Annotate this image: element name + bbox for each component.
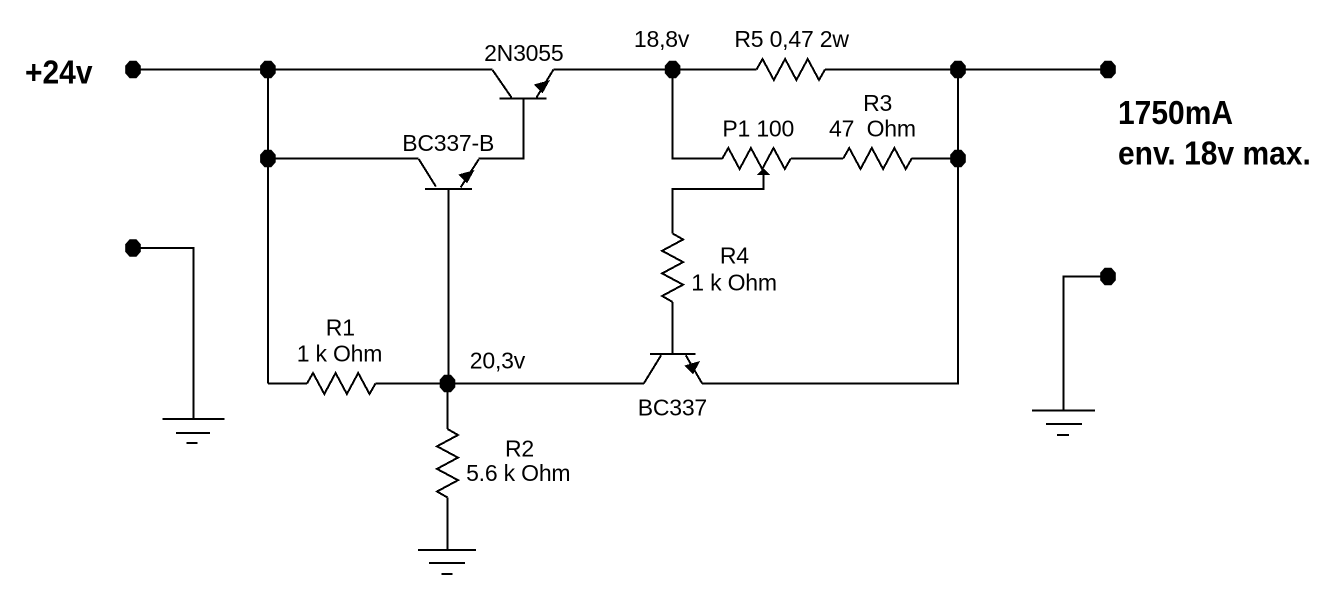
svg-text:env. 18v max.: env. 18v max. (1118, 134, 1311, 172)
ground (left) (163, 419, 225, 443)
junction node BC337-B collector (260, 150, 276, 167)
wire right ground terminal to ground (1064, 277, 1109, 411)
wire BC337-B collector lead (268, 158, 419, 160)
wire BC337-B emitter to 2N3055 base (479, 99, 524, 159)
svg-text:R5 0,47 2w: R5 0,47 2w (734, 26, 849, 52)
resistor R1 zigzag (307, 373, 376, 394)
junction node on +24v rail (260, 61, 276, 78)
wire R2 to bottom ground (447, 498, 449, 551)
potentiometer P1 zigzag (722, 148, 791, 169)
ground (bottom, below R2) (418, 550, 476, 574)
wire P1 to R3 (791, 158, 843, 160)
svg-text:P1 100: P1 100 (722, 116, 794, 142)
svg-text:1 k Ohm: 1 k Ohm (691, 270, 777, 296)
node 20,3v (440, 375, 456, 392)
wire R1 row from vertical to zigzag (268, 383, 307, 385)
resistor R3 zigzag (843, 148, 912, 169)
wire top rail right (R5 to output terminal) (825, 69, 1108, 71)
wire vertical from +24v rail down to R1 (267, 70, 269, 384)
wire 18,8v node down to P1 row (673, 70, 723, 159)
potentiometer P1 wiper arrow and wire to R4 (673, 168, 770, 234)
svg-text:R3: R3 (863, 90, 892, 116)
transistor Q2 BC337-B (419, 159, 479, 189)
wire left ground terminal to ground (133, 248, 194, 419)
svg-text:R1: R1 (326, 314, 355, 340)
wire R3 to right node (912, 158, 958, 160)
node top right (950, 61, 966, 78)
wire R4 to BC337 base (672, 302, 674, 354)
resistor R4 vertical zigzag (662, 234, 683, 303)
wire right vertical (output node down to BC337 emitter row) (702, 70, 958, 384)
resistor R2 vertical zigzag (437, 429, 458, 498)
wire BC337-B base lead down to node 20,3v (447, 189, 449, 384)
wire node 20,3v to BC337 collector (448, 383, 644, 385)
svg-text:5.6 k Ohm: 5.6 k Ohm (466, 460, 570, 486)
ground (right) (1032, 411, 1095, 436)
svg-text:1 k Ohm: 1 k Ohm (297, 341, 383, 367)
svg-text:R2: R2 (505, 436, 534, 462)
resistor R5 zigzag (757, 59, 826, 80)
svg-text:47 Ohm: 47 Ohm (829, 116, 916, 142)
transistor Q1 2N3055 (493, 70, 554, 99)
wire R1 to node 20,3v (376, 383, 448, 385)
terminal output (1100, 61, 1116, 78)
svg-text:+24v: +24v (25, 53, 93, 91)
svg-text:2N3055: 2N3055 (484, 40, 563, 66)
terminal ground left (125, 239, 141, 256)
svg-text:20,3v: 20,3v (470, 348, 526, 374)
node 18,8v (665, 61, 681, 78)
transistor Q3 BC337 (644, 354, 702, 383)
wire node 20,3v down to R2 (447, 384, 449, 430)
wire top rail left (+24v to 2N3055 collector) (133, 69, 493, 71)
wire top rail middle (2N3055 emitter to R5) (554, 69, 757, 71)
svg-text:BC337: BC337 (638, 395, 707, 421)
node R3 right (950, 150, 966, 167)
svg-text:18,8v: 18,8v (634, 26, 690, 52)
svg-text:1750mA: 1750mA (1118, 94, 1233, 132)
terminal ground right (1100, 268, 1116, 285)
terminal +24v input (125, 61, 141, 78)
svg-text:BC337-B: BC337-B (402, 130, 494, 156)
svg-text:R4: R4 (720, 243, 749, 269)
